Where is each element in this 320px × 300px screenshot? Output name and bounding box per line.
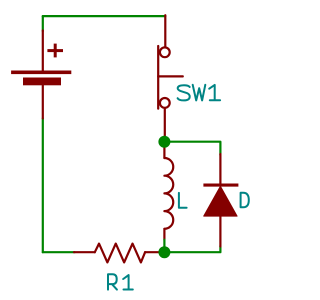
- wire inductor to node B: [163, 240, 165, 253]
- inductor L top pin: [163, 142, 165, 158]
- switch SW1 bottom pin: [164, 109, 166, 142]
- label SW1: [178, 85, 221, 101]
- switch SW1 top contact circle: [160, 47, 170, 57]
- wire junction A to diode branch top: [164, 142, 220, 155]
- resistor R1 left pin: [74, 251, 95, 253]
- battery BT1 top plate: [11, 71, 71, 75]
- battery BT1 top pin: [42, 31, 44, 71]
- wire diode branch bottom: [164, 246, 220, 252]
- diode D triangle: [204, 186, 237, 216]
- inductor L coil: [164, 158, 173, 229]
- diode D top pin: [219, 154, 221, 185]
- label R1: [108, 274, 133, 289]
- diode D cathode bar: [203, 184, 238, 187]
- resistor R1 right pin: [145, 251, 164, 253]
- switch SW1 bottom contact circle: [160, 98, 170, 108]
- switch SW1 actuator stem: [158, 75, 183, 77]
- label L: [179, 193, 187, 208]
- battery BT1 plus sign: [47, 44, 63, 58]
- node B junction dot: [158, 246, 170, 258]
- diode D bottom pin: [219, 216, 221, 246]
- wire top horizontal: [43, 15, 166, 17]
- battery BT1 bottom pin: [42, 85, 44, 118]
- switch SW1 top pin: [164, 15, 166, 46]
- battery BT1 bottom plate: [23, 78, 61, 86]
- wire left vertical upper: [42, 16, 44, 31]
- wire left vertical lower: [42, 118, 44, 252]
- wire bottom left: [43, 251, 75, 253]
- node A junction dot: [158, 136, 170, 148]
- resistor R1 zigzag body: [95, 244, 145, 263]
- inductor L bottom pin: [163, 229, 165, 240]
- switch SW1 bar: [157, 46, 159, 109]
- label D: [241, 193, 249, 208]
